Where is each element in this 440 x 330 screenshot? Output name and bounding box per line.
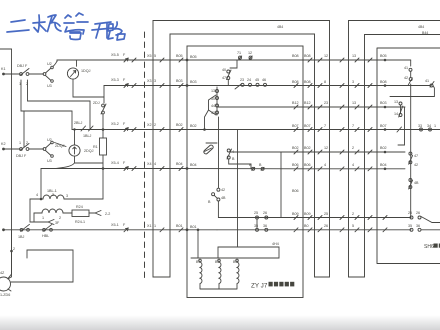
svg-text:B08: B08 [380, 80, 387, 84]
svg-text:40: 40 [222, 68, 226, 72]
svg-text:B07: B07 [292, 124, 299, 128]
wire top-left stub [0, 48, 12, 50]
svg-text:42: 42 [414, 163, 418, 167]
svg-text:X5: X5 [147, 54, 152, 58]
dashed boundary line [144, 32, 146, 280]
svg-text:43: 43 [211, 111, 215, 115]
wire riser x281 [280, 152, 282, 218]
handwriting annotation: 二极管 开路 [0, 0, 140, 48]
contact hairpin SH6 [390, 82, 434, 97]
node x198 [197, 229, 200, 232]
svg-text:2DQJ: 2DQJ [84, 149, 94, 153]
svg-text:12: 12 [324, 54, 328, 58]
node B01 [186, 228, 189, 231]
svg-text:B: B [259, 163, 262, 167]
wire line y229.8 [217, 229, 303, 231]
svg-text:B: B [208, 200, 211, 204]
svg-text:B01: B01 [190, 225, 197, 229]
contact DBJ row1 [20, 69, 29, 76]
svg-text:U3: U3 [47, 84, 52, 88]
svg-text:X5-3: X5-3 [111, 78, 119, 82]
wire gap line y229.8 [303, 229, 411, 231]
wire gap line y129.5 [303, 129, 377, 131]
svg-text:4: 4 [352, 163, 354, 167]
inductor 1BL-1 [30, 195, 103, 200]
svg-text:X4: X4 [147, 162, 152, 166]
wire X5-5 line [57, 59, 187, 61]
contact marks gap y217.5 [308, 216, 387, 220]
labels left rows [0, 53, 126, 297]
svg-text:B02: B02 [292, 146, 299, 150]
svg-text:B01: B01 [176, 224, 183, 228]
contact pair y152 [227, 149, 251, 169]
wire drop x198 [197, 230, 199, 258]
labels gap lines [304, 54, 356, 228]
wire gap line y107 [303, 106, 377, 108]
svg-text:2: 2 [59, 216, 61, 220]
svg-text:F: F [123, 223, 126, 227]
svg-text:B02: B02 [176, 123, 183, 127]
svg-text:3: 3 [154, 79, 156, 83]
svg-text:4: 4 [324, 163, 326, 167]
wire x41 riser to X5-4 [40, 169, 42, 200]
svg-text:2: 2 [52, 193, 54, 197]
svg-text:X5-5: X5-5 [111, 53, 119, 57]
svg-text:2: 2 [13, 247, 15, 251]
svg-text:12: 12 [324, 146, 328, 150]
svg-text:35: 35 [408, 224, 412, 228]
svg-text:DBJ F: DBJ F [17, 64, 28, 68]
svg-text:R1: R1 [93, 145, 98, 149]
svg-text:25: 25 [408, 211, 412, 215]
svg-text:B02: B02 [380, 146, 387, 150]
contact marks gap y85.5 [308, 84, 372, 88]
svg-text:25: 25 [254, 211, 258, 215]
svg-text:4B4: 4B4 [418, 25, 424, 29]
contact chain SH6 main [409, 86, 413, 218]
svg-text:HBL: HBL [42, 234, 49, 238]
contact mark y129 [294, 128, 298, 132]
contact 2DQJ changeover [43, 141, 53, 157]
contact marks X5-5 right [160, 58, 183, 62]
node X5-1 left [2, 228, 5, 231]
node K1 [2, 73, 5, 76]
svg-text:26: 26 [416, 211, 420, 215]
svg-text:B44: B44 [422, 31, 428, 35]
node relay2 feed [73, 128, 75, 130]
contact marks X5-2 right [124, 128, 183, 132]
wire row2 feed [4, 148, 21, 150]
transformer coil 3 [236, 259, 239, 288]
svg-text:B03: B03 [380, 101, 387, 105]
svg-text:14: 14 [394, 112, 398, 116]
svg-text:B09: B09 [304, 212, 311, 216]
svg-text:B08: B08 [292, 80, 299, 84]
contact 2 on X5-1 [43, 224, 53, 231]
char 极 [33, 22, 45, 23]
node B04 [186, 167, 189, 170]
svg-text:1: 1 [19, 141, 21, 145]
wire stub y143 [206, 142, 217, 144]
svg-text:X5-2: X5-2 [111, 122, 119, 126]
wire X5-4 line [41, 168, 187, 170]
wire relay1 bottom [73, 79, 104, 97]
pencil mark box A [203, 144, 214, 154]
svg-text:1: 1 [154, 224, 156, 228]
contact group 23-46 [235, 83, 298, 89]
node 2 [10, 250, 13, 253]
contact chain left [205, 87, 219, 188]
contact DBJ row2 [20, 144, 29, 151]
svg-text:X2: X2 [147, 123, 152, 127]
contact 41 42 SH6 [408, 60, 412, 86]
svg-text:DBJ F: DBJ F [16, 154, 27, 158]
svg-text:F: F [123, 53, 126, 57]
svg-text:44: 44 [211, 104, 215, 108]
svg-text:B09: B09 [292, 212, 299, 216]
labels terminal column [147, 54, 183, 228]
svg-text:1BJ: 1BJ [18, 235, 25, 239]
relay 1DQJ [67, 68, 78, 79]
char 路 [108, 24, 113, 31]
cluster top contacts [227, 56, 253, 86]
svg-text:B07: B07 [380, 124, 387, 128]
svg-text:1DQJ: 1DQJ [81, 69, 91, 73]
svg-text:K1: K1 [1, 67, 6, 71]
svg-text:B12: B12 [292, 101, 299, 105]
contact marks gap y169 [308, 167, 372, 171]
motor ZD6 [0, 277, 11, 291]
wire left bus vertical [11, 49, 13, 277]
wire line y217.5 [218, 201, 303, 218]
label SH6 smudge [434, 244, 440, 248]
arrow 2F [48, 220, 54, 225]
contacts 33 34 SH6 [397, 127, 432, 132]
svg-text:F: F [123, 78, 126, 82]
wire box line2 [187, 85, 303, 87]
svg-text:B05: B05 [380, 54, 387, 58]
svg-text:B03: B03 [190, 80, 197, 84]
svg-text:U3: U3 [47, 159, 52, 163]
svg-text:2: 2 [154, 123, 156, 127]
wire motor loop left riser [26, 250, 28, 258]
wire box line4 [187, 168, 303, 170]
svg-text:B2: B2 [215, 260, 220, 264]
wire row1 to branch [29, 73, 44, 75]
box ZYJ7 [187, 46, 303, 298]
wire inner line y152 [231, 151, 303, 153]
svg-text:B04: B04 [176, 162, 183, 166]
svg-text:K2: K2 [1, 142, 6, 146]
svg-text:46: 46 [262, 78, 266, 82]
contact marks gap y229.8 [308, 228, 387, 232]
svg-text:4Z: 4Z [0, 271, 5, 275]
arrow 2-2 [95, 211, 101, 216]
svg-text:X3: X3 [147, 79, 152, 83]
wire relay2 curve to X5-4 [56, 163, 75, 169]
svg-text:3: 3 [66, 194, 68, 198]
contact 2BLJ marks [81, 126, 93, 131]
svg-text:7: 7 [324, 124, 326, 128]
contact pair y217.5 [256, 216, 299, 229]
wire X5-2 line [72, 129, 187, 131]
svg-text:ZY J7: ZY J7 [251, 283, 268, 290]
label dianzhuanzheji smudge [269, 282, 295, 287]
transformer coil 2 [218, 259, 221, 288]
contact marks gap y152 [308, 150, 372, 154]
bottom gradient [0, 315, 440, 330]
char 二 [11, 20, 25, 22]
contact mark y152 [294, 150, 298, 154]
contact chain SH6 left [398, 102, 405, 145]
svg-text:B07: B07 [304, 124, 311, 128]
contact marks gap y129.5 [308, 128, 372, 132]
char 管 [65, 15, 71, 18]
svg-text:B08: B08 [304, 80, 311, 84]
contact marks X5-4 [124, 167, 183, 171]
svg-text:1-ZD6: 1-ZD6 [0, 293, 10, 297]
svg-text:13: 13 [394, 100, 398, 104]
svg-text:X5-1: X5-1 [111, 223, 119, 227]
contact cluster y187-206 [212, 188, 220, 201]
svg-text:12: 12 [248, 51, 252, 55]
wire riser x237 [237, 130, 239, 248]
node X5-2 box [203, 128, 206, 131]
svg-text:2BLJ: 2BLJ [74, 121, 83, 125]
wire loop y111 [21, 80, 72, 111]
svg-text:X1: X1 [147, 224, 152, 228]
contact 1DQJ changeover [43, 66, 53, 82]
labels SH6 box [380, 54, 436, 250]
svg-text:26: 26 [263, 211, 267, 215]
contact mark y107 [294, 105, 298, 109]
wire row1 feed [4, 73, 21, 75]
svg-text:2: 2 [352, 212, 354, 216]
wire box line3 [187, 129, 303, 131]
wire relay2 bottom tee [75, 156, 104, 163]
wire box line1 [187, 59, 303, 61]
contacts on line4 [252, 167, 264, 170]
contact marks X5-1 right [124, 228, 183, 232]
terminal dots SH6 [384, 59, 387, 170]
wire relay2 top feed [74, 130, 76, 146]
svg-text:2: 2 [26, 141, 28, 145]
svg-text:B0: B0 [304, 224, 309, 228]
svg-text:3F: 3F [55, 221, 60, 225]
svg-text:R24-1: R24-1 [75, 220, 85, 224]
svg-text:4B: 4B [414, 181, 419, 185]
svg-text:R24: R24 [76, 205, 83, 209]
wire box line5 [187, 229, 217, 231]
svg-text:F: F [123, 161, 126, 165]
svg-text:4: 4 [154, 162, 156, 166]
svg-text:36: 36 [263, 224, 267, 228]
svg-text:23: 23 [240, 78, 244, 82]
wire X5-5 riser [56, 60, 58, 62]
wire gap line y169 [303, 168, 377, 170]
svg-text:33: 33 [418, 124, 422, 128]
svg-text:5: 5 [154, 54, 156, 58]
wire motor drop [8, 230, 12, 279]
svg-text:42: 42 [221, 188, 225, 192]
wire X5-1 line [4, 229, 188, 231]
node X5-4 x103 [102, 167, 105, 170]
svg-text:F: F [123, 122, 126, 126]
svg-text:U2: U2 [47, 138, 52, 142]
wire vertical x24 inter-row [23, 111, 25, 147]
svg-text:B06: B06 [304, 163, 311, 167]
wire branch top to riser [53, 61, 57, 67]
svg-text:50: 50 [211, 97, 215, 101]
svg-text:1BLJ: 1BLJ [83, 134, 92, 138]
wire motor loop [11, 250, 73, 282]
contact marks gap y107 [308, 105, 372, 109]
transformer coil 1 [199, 259, 202, 288]
relay 2DQJ [69, 145, 80, 156]
svg-text:B08: B08 [304, 54, 311, 58]
svg-text:13: 13 [352, 54, 356, 58]
svg-text:26: 26 [324, 224, 328, 228]
svg-text:B04: B04 [380, 163, 387, 167]
contact marks X5-5 [124, 58, 136, 62]
svg-text:B02: B02 [190, 124, 197, 128]
svg-text:X5-4: X5-4 [111, 161, 119, 165]
svg-text:B: B [249, 163, 252, 167]
svg-text:2: 2 [352, 146, 354, 150]
svg-text:4: 4 [36, 193, 38, 197]
svg-text:B04: B04 [190, 163, 197, 167]
svg-text:13: 13 [352, 101, 356, 105]
resistor R1 column [100, 86, 107, 200]
wire relay1 top feed [76, 60, 78, 66]
wire loop x30 [30, 199, 48, 222]
box SH6 [377, 48, 440, 264]
svg-text:B06: B06 [292, 189, 299, 193]
svg-text:3: 3 [352, 80, 354, 84]
wire gap line y152 [303, 151, 377, 153]
svg-text:1: 1 [19, 82, 21, 86]
svg-text:24: 24 [247, 78, 251, 82]
svg-text:B05: B05 [176, 54, 183, 58]
wire vertical x72 to X5-2 [71, 111, 73, 130]
svg-text:71: 71 [237, 51, 241, 55]
wire gap line y85.5 [303, 85, 377, 87]
cable band B [349, 21, 440, 278]
wire vertical x90 [89, 101, 91, 130]
wire loop contact2 down [28, 80, 91, 101]
contact marks gap y60 [308, 58, 372, 62]
svg-text:8: 8 [324, 80, 326, 84]
node B05 [186, 59, 189, 62]
inductor 2BL [34, 209, 63, 222]
svg-text:5: 5 [352, 224, 354, 228]
node X5-2 x103 [102, 128, 105, 131]
svg-text:42: 42 [404, 76, 408, 80]
svg-text:2DJ: 2DJ [93, 101, 100, 105]
svg-text:41: 41 [425, 79, 429, 83]
svg-text:47: 47 [222, 76, 226, 80]
contact 1BJ [20, 224, 29, 231]
svg-text:4B: 4B [221, 196, 226, 200]
wire X5-3 line [104, 85, 187, 87]
svg-text:U2: U2 [47, 62, 52, 66]
svg-text:41: 41 [404, 66, 408, 70]
svg-text:B08: B08 [292, 54, 299, 58]
wire riser x218 [217, 247, 219, 258]
svg-text:2: 2 [26, 82, 28, 86]
wire coil bottoms [200, 288, 237, 290]
svg-text:4: 4 [232, 150, 234, 154]
contact mark y169 [294, 167, 298, 171]
svg-text:B03: B03 [176, 79, 183, 83]
svg-text:7: 7 [352, 124, 354, 128]
svg-text:34: 34 [427, 124, 431, 128]
svg-text:1: 1 [434, 124, 436, 128]
svg-text:B02: B02 [304, 146, 311, 150]
wire gap line y217.5 [303, 217, 411, 219]
svg-text:1: 1 [42, 216, 44, 220]
svg-text:36: 36 [416, 224, 420, 228]
svg-text:SH6: SH6 [424, 244, 434, 250]
svg-text:B05: B05 [190, 55, 197, 59]
svg-text:B12: B12 [304, 101, 311, 105]
label ZYJ7 [251, 283, 268, 290]
svg-text:4H4: 4H4 [272, 242, 279, 246]
cable band A [153, 21, 330, 278]
wire branch to relay2 [55, 143, 67, 147]
svg-text:4B4: 4B4 [277, 25, 283, 29]
contact marks X5-3 [124, 84, 183, 88]
svg-text:25: 25 [324, 212, 328, 216]
svg-text:35: 35 [254, 224, 258, 228]
svg-text:2-2: 2-2 [105, 212, 110, 216]
svg-text:2DQJ: 2DQJ [55, 144, 65, 148]
svg-text:47: 47 [414, 154, 418, 158]
svg-text:B06: B06 [292, 163, 299, 167]
wire gap line y60 [303, 59, 377, 61]
contact pair y229.8 [256, 228, 299, 232]
svg-text:B: B [232, 157, 235, 161]
node B03 [186, 84, 189, 87]
char 开 [95, 22, 111, 24]
svg-text:23: 23 [324, 101, 328, 105]
svg-text:B1: B1 [196, 260, 201, 264]
wire transformer bus [191, 247, 279, 258]
labels band [277, 25, 428, 35]
resistor R24 [63, 210, 95, 217]
node K2 [2, 148, 5, 151]
svg-text:45: 45 [255, 78, 259, 82]
wire inner line y107 [217, 106, 303, 108]
wire row2 to branch [29, 148, 44, 150]
contacts 35 36 SH6 [410, 228, 440, 231]
svg-text:13: 13 [211, 89, 215, 93]
wire SH6 stubs [377, 60, 440, 169]
labels middle box [190, 51, 299, 264]
svg-text:B3: B3 [233, 260, 238, 264]
contacts 25 26 SH6 [410, 216, 440, 223]
